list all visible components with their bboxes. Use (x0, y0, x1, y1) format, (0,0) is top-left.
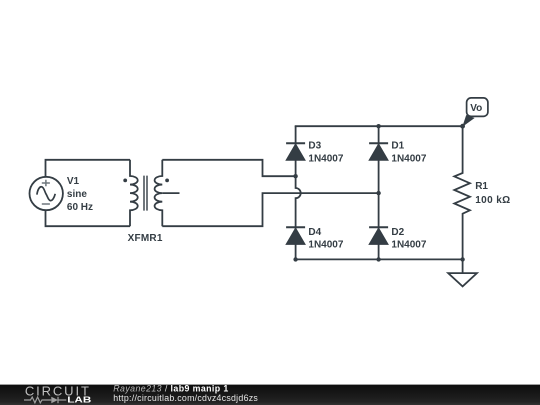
CircuitLab logo (24, 384, 91, 405)
svg-text:http://circuitlab.com/cdvz4csd: http://circuitlab.com/cdvz4csdjd6zs (113, 393, 258, 403)
svg-text:Vo: Vo (470, 103, 482, 114)
resistor R1 (454, 126, 470, 259)
diode D1 (369, 143, 388, 160)
svg-text:D1: D1 (391, 141, 404, 152)
svg-text:60 Hz: 60 Hz (67, 202, 93, 213)
transformer XFMR1 (123, 160, 179, 226)
svg-text:LAB: LAB (67, 394, 91, 404)
svg-text:Rayane213 / lab9 manip 1: Rayane213 / lab9 manip 1 (113, 383, 228, 393)
footer bar (0, 383, 540, 405)
wire bridge bottom rail (295, 258, 464, 260)
node Vo flag (462, 98, 488, 127)
svg-text:XFMR1: XFMR1 (128, 233, 163, 244)
svg-text:D2: D2 (391, 227, 404, 238)
voltage source V1 (30, 177, 63, 210)
wire primary loop bottom (46, 210, 131, 226)
svg-text:sine: sine (67, 189, 87, 200)
footer attribution text (113, 383, 258, 403)
wire bridge right rail (378, 126, 380, 259)
junction dot top rail D1 (376, 124, 380, 128)
junction dot secondary bottom (376, 191, 380, 195)
wire primary loop top (46, 160, 131, 177)
wire bridge left rail with hop (296, 126, 301, 259)
svg-text:V1: V1 (67, 176, 80, 187)
svg-text:1N4007: 1N4007 (308, 239, 343, 250)
svg-text:1N4007: 1N4007 (308, 154, 343, 165)
svg-text:1N4007: 1N4007 (391, 239, 426, 250)
junction dot bottom right (460, 257, 464, 261)
svg-text:1N4007: 1N4007 (391, 154, 426, 165)
junction dot bottom left (293, 257, 297, 261)
wire secondary bottom (162, 193, 378, 226)
svg-text:R1: R1 (475, 181, 488, 192)
junction dot secondary top (293, 174, 297, 178)
junction dot bottom middle (376, 257, 380, 261)
svg-text:D4: D4 (308, 227, 321, 238)
diode D4 (286, 227, 305, 244)
diode D3 (286, 143, 305, 160)
svg-text:100 kΩ: 100 kΩ (475, 195, 510, 206)
ground (448, 259, 477, 286)
junction dot Vo node (460, 124, 465, 129)
wire bridge top rail (295, 125, 464, 127)
wire secondary top (162, 160, 295, 176)
svg-text:D3: D3 (308, 141, 321, 152)
diode D2 (369, 227, 388, 244)
